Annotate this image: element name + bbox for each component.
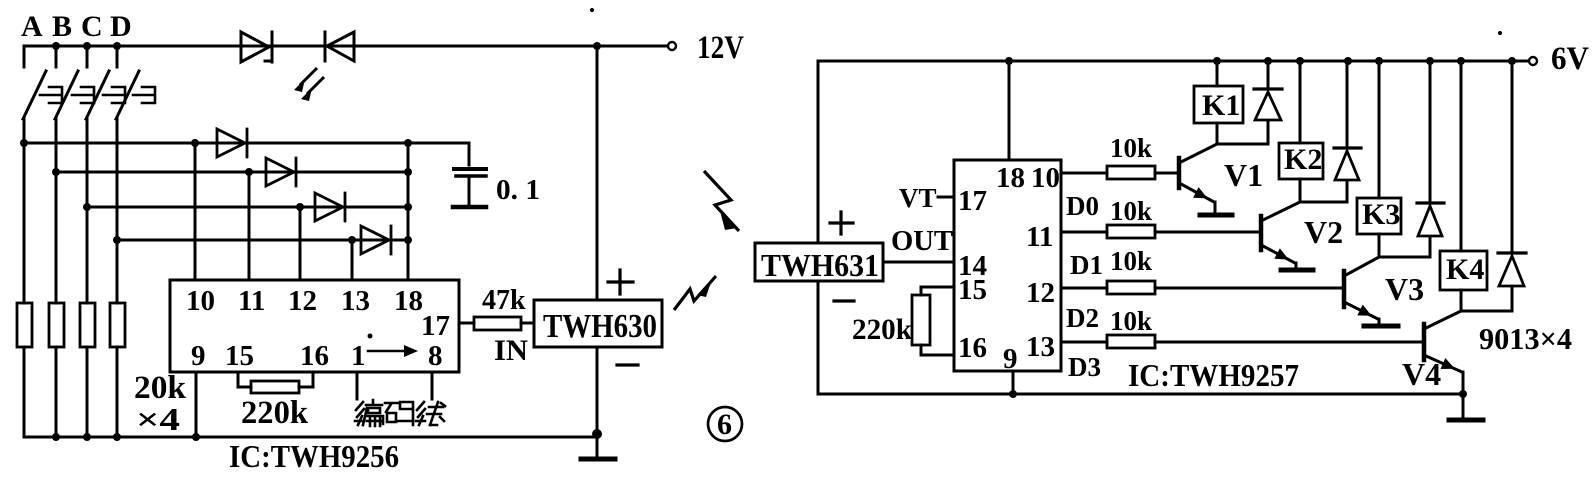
svg-text:12: 12 <box>288 285 317 317</box>
svg-text:9: 9 <box>191 340 206 372</box>
svg-text:×4: ×4 <box>136 401 180 437</box>
svg-text:10k: 10k <box>1110 246 1152 276</box>
svg-text:IN: IN <box>494 334 528 367</box>
svg-text:K2: K2 <box>1284 143 1322 176</box>
svg-text:16: 16 <box>958 332 987 364</box>
svg-text:17: 17 <box>958 185 987 217</box>
svg-text:D2: D2 <box>1066 303 1099 333</box>
svg-text:11: 11 <box>238 285 265 317</box>
svg-text:D3: D3 <box>1068 352 1101 382</box>
svg-text:13: 13 <box>1026 331 1055 363</box>
svg-text:15: 15 <box>958 274 987 306</box>
svg-text:0. 1: 0. 1 <box>496 175 540 206</box>
svg-text:B: B <box>52 10 72 43</box>
svg-text:D0: D0 <box>1066 191 1099 221</box>
svg-text:IC:TWH9257: IC:TWH9257 <box>1128 357 1299 393</box>
svg-text:OUT: OUT <box>891 226 953 257</box>
svg-text:8: 8 <box>428 340 443 372</box>
svg-text:IC:TWH9256: IC:TWH9256 <box>229 438 399 474</box>
svg-text:6: 6 <box>717 408 732 441</box>
svg-text:6V: 6V <box>1551 41 1589 77</box>
svg-text:10: 10 <box>186 285 215 317</box>
svg-text:15: 15 <box>225 340 254 372</box>
svg-text:V2: V2 <box>1304 214 1343 250</box>
svg-text:220k: 220k <box>241 395 309 431</box>
svg-text:11: 11 <box>1026 221 1053 253</box>
svg-text:220k: 220k <box>852 313 912 346</box>
svg-text:10: 10 <box>1031 162 1060 194</box>
svg-text:47k: 47k <box>482 285 526 316</box>
svg-text:10k: 10k <box>1110 196 1152 226</box>
svg-text:K4: K4 <box>1446 253 1484 286</box>
svg-text:17: 17 <box>421 310 450 342</box>
svg-text:12: 12 <box>1026 277 1055 309</box>
svg-text:TWH630: TWH630 <box>543 308 657 345</box>
svg-text:18: 18 <box>394 285 423 317</box>
svg-text:10k: 10k <box>1110 133 1152 163</box>
svg-text:K1: K1 <box>1202 89 1240 122</box>
svg-text:13: 13 <box>341 285 370 317</box>
svg-text:C: C <box>81 10 103 43</box>
svg-text:D: D <box>110 10 132 43</box>
svg-text:VT: VT <box>899 183 937 213</box>
svg-text:V4: V4 <box>1402 356 1441 392</box>
svg-text:9013×4: 9013×4 <box>1479 321 1572 356</box>
svg-text:16: 16 <box>300 340 329 372</box>
svg-text:9: 9 <box>1003 343 1018 375</box>
svg-text:18: 18 <box>996 162 1025 194</box>
svg-text:V1: V1 <box>1224 157 1263 193</box>
svg-text:K3: K3 <box>1362 198 1400 231</box>
svg-text:TWH631: TWH631 <box>761 247 879 283</box>
svg-text:1: 1 <box>351 340 366 372</box>
svg-text:12V: 12V <box>697 30 744 66</box>
svg-text:A: A <box>21 10 43 43</box>
svg-text:D1: D1 <box>1070 250 1103 280</box>
svg-text:V3: V3 <box>1385 271 1424 307</box>
svg-text:10k: 10k <box>1110 306 1152 336</box>
